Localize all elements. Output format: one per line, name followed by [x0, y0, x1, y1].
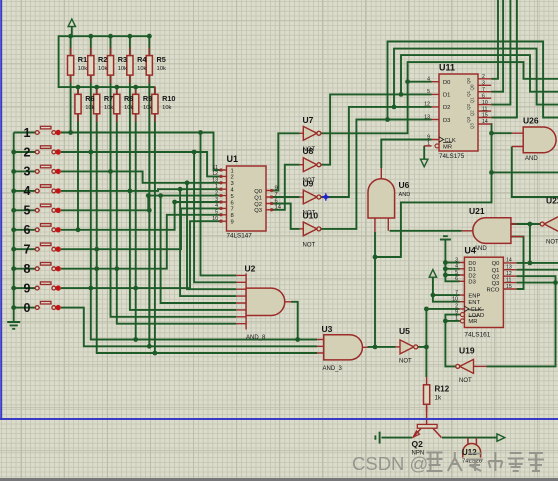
- svg-text:NOT: NOT: [546, 240, 558, 246]
- svg-text:5: 5: [24, 204, 31, 218]
- svg-text:D0: D0: [443, 80, 450, 86]
- svg-text:6: 6: [482, 93, 485, 99]
- svg-text:AND_3: AND_3: [323, 366, 343, 372]
- svg-text:10k: 10k: [98, 66, 107, 72]
- svg-text:5: 5: [215, 210, 218, 216]
- svg-text:10k: 10k: [157, 66, 166, 72]
- svg-text:U19: U19: [459, 346, 475, 356]
- svg-text:U1: U1: [227, 154, 239, 164]
- svg-text:7: 7: [482, 87, 485, 93]
- svg-text:MR: MR: [443, 144, 452, 150]
- svg-text:NOT: NOT: [303, 242, 316, 248]
- svg-text:2: 2: [215, 190, 218, 196]
- svg-text:5: 5: [231, 194, 234, 200]
- svg-text:10k: 10k: [137, 66, 146, 72]
- svg-text:12: 12: [212, 171, 218, 177]
- svg-text:7: 7: [231, 207, 234, 213]
- svg-text:D0: D0: [468, 261, 475, 267]
- svg-text:D2: D2: [468, 273, 475, 279]
- svg-text:10k: 10k: [124, 105, 133, 111]
- svg-text:15: 15: [482, 113, 488, 119]
- svg-text:6: 6: [24, 223, 31, 237]
- svg-text:14: 14: [275, 205, 282, 211]
- svg-text:R5: R5: [157, 55, 166, 64]
- svg-text:D3: D3: [468, 280, 475, 286]
- svg-text:2: 2: [482, 74, 485, 80]
- svg-text:14: 14: [506, 258, 512, 264]
- svg-text:U10: U10: [303, 210, 319, 220]
- svg-text:D1: D1: [443, 93, 450, 99]
- svg-text:10: 10: [212, 216, 218, 222]
- svg-text:D3: D3: [443, 118, 450, 124]
- svg-text:Q2: Q2: [412, 439, 424, 449]
- svg-text:U2: U2: [245, 264, 256, 274]
- svg-text:D1: D1: [468, 267, 475, 273]
- svg-text:R8: R8: [124, 94, 133, 103]
- svg-text:Q0: Q0: [492, 261, 500, 267]
- svg-text:15: 15: [506, 284, 512, 290]
- svg-text:1k: 1k: [435, 395, 442, 402]
- svg-text:11: 11: [506, 277, 511, 283]
- svg-text:3: 3: [215, 197, 218, 203]
- svg-text:74LS175: 74LS175: [439, 153, 465, 160]
- svg-text:Q3: Q3: [492, 281, 500, 287]
- svg-text:MR: MR: [468, 319, 477, 325]
- svg-text:9: 9: [275, 185, 278, 191]
- svg-text:5: 5: [427, 89, 430, 95]
- svg-text:12: 12: [506, 271, 512, 277]
- svg-text:1: 1: [231, 168, 234, 174]
- svg-text:10k: 10k: [143, 105, 152, 111]
- svg-text:7: 7: [275, 192, 278, 198]
- svg-text:6: 6: [275, 198, 278, 204]
- svg-text:CSDN @: CSDN @: [352, 453, 428, 474]
- svg-text:AND: AND: [474, 246, 487, 252]
- svg-text:11: 11: [213, 165, 218, 171]
- svg-text:8: 8: [231, 213, 234, 219]
- svg-text:6: 6: [455, 276, 458, 282]
- svg-text:74LS147: 74LS147: [227, 233, 253, 240]
- svg-text:4: 4: [215, 203, 218, 209]
- svg-text:9: 9: [24, 281, 31, 295]
- svg-text:R10: R10: [162, 94, 175, 103]
- svg-text:10: 10: [452, 297, 458, 303]
- svg-text:3: 3: [231, 181, 234, 187]
- svg-text:U9: U9: [303, 179, 314, 189]
- svg-text:6: 6: [231, 200, 234, 206]
- svg-text:R6: R6: [85, 94, 94, 103]
- svg-text:NOT: NOT: [459, 378, 472, 384]
- svg-text:D2: D2: [443, 105, 450, 111]
- svg-text:AND_8: AND_8: [246, 335, 266, 341]
- svg-text:R9: R9: [143, 94, 152, 103]
- svg-text:13: 13: [506, 265, 512, 271]
- svg-text:Q1: Q1: [492, 268, 500, 274]
- svg-text:R3: R3: [118, 55, 127, 64]
- svg-text:U26: U26: [523, 116, 539, 126]
- svg-text:Q2: Q2: [466, 103, 471, 110]
- svg-text:AND: AND: [399, 192, 411, 198]
- svg-text:Q2: Q2: [492, 275, 500, 281]
- svg-text:9: 9: [427, 134, 430, 140]
- svg-text:U3: U3: [322, 324, 333, 334]
- svg-text:9: 9: [455, 309, 458, 315]
- svg-text:U22: U22: [546, 196, 558, 206]
- svg-text:R4: R4: [137, 55, 147, 64]
- svg-text:10k: 10k: [104, 105, 113, 111]
- svg-text:10: 10: [482, 100, 488, 106]
- svg-text:Q3: Q3: [254, 208, 262, 214]
- svg-text:Q3: Q3: [470, 123, 475, 130]
- svg-text:U11: U11: [439, 63, 455, 73]
- svg-text:Q3: Q3: [466, 116, 471, 123]
- svg-text:Q1: Q1: [254, 195, 262, 201]
- svg-text:Q1: Q1: [470, 97, 475, 104]
- svg-text:0: 0: [24, 301, 31, 315]
- svg-text:2: 2: [24, 145, 31, 159]
- svg-text:13: 13: [212, 178, 218, 184]
- svg-text:U8: U8: [303, 146, 314, 156]
- svg-text:3: 3: [482, 81, 485, 87]
- svg-text:R1: R1: [78, 55, 87, 64]
- svg-text:ENP: ENP: [468, 293, 480, 299]
- svg-text:Q0: Q0: [254, 189, 262, 195]
- svg-text:14: 14: [482, 119, 488, 125]
- svg-text:Q1: Q1: [466, 90, 471, 97]
- svg-text:4: 4: [455, 264, 458, 270]
- svg-text:1: 1: [455, 316, 458, 322]
- svg-text:10k: 10k: [162, 105, 171, 111]
- svg-text:3: 3: [455, 257, 458, 263]
- svg-text:1: 1: [24, 126, 31, 140]
- svg-text:R2: R2: [98, 55, 107, 64]
- svg-text:11: 11: [482, 106, 487, 112]
- svg-text:8: 8: [24, 262, 31, 276]
- svg-text:ENT: ENT: [468, 300, 480, 306]
- svg-text:NOT: NOT: [399, 359, 412, 365]
- svg-text:U5: U5: [399, 326, 410, 336]
- svg-text:Q0: Q0: [470, 84, 475, 91]
- svg-text:1: 1: [215, 184, 218, 190]
- svg-text:4: 4: [24, 184, 31, 198]
- svg-text:5: 5: [455, 270, 458, 276]
- svg-text:74LS161: 74LS161: [464, 332, 490, 339]
- svg-text:AND: AND: [525, 156, 538, 162]
- svg-text:U6: U6: [399, 180, 410, 190]
- svg-text:2: 2: [231, 175, 234, 181]
- svg-text:3: 3: [24, 165, 31, 179]
- svg-text:Q0: Q0: [466, 78, 471, 85]
- svg-text:10k: 10k: [118, 66, 127, 72]
- svg-text:10k: 10k: [85, 105, 94, 111]
- svg-text:Q2: Q2: [470, 110, 475, 117]
- svg-text:7: 7: [24, 243, 31, 257]
- svg-text:10k: 10k: [78, 66, 87, 72]
- svg-text:R12: R12: [435, 385, 450, 394]
- svg-text:7: 7: [455, 290, 458, 296]
- svg-text:9: 9: [231, 220, 234, 226]
- svg-text:U7: U7: [303, 115, 314, 125]
- svg-text:R7: R7: [104, 94, 113, 103]
- svg-text:12: 12: [424, 102, 430, 108]
- svg-text:Q2: Q2: [254, 202, 262, 208]
- svg-text:4: 4: [427, 77, 430, 83]
- svg-text:RCO: RCO: [487, 287, 500, 293]
- svg-text:U21: U21: [469, 206, 485, 216]
- svg-text:13: 13: [424, 114, 430, 120]
